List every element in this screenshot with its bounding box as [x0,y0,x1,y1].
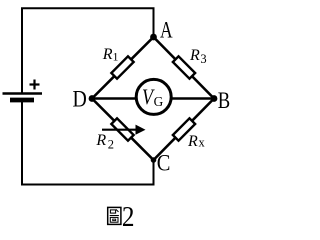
svg-text:A: A [160,18,173,43]
svg-text:R: R [102,46,113,63]
node D [89,95,96,102]
node A [150,34,157,41]
svg-text:D: D [73,86,87,112]
svg-text:x: x [199,136,206,150]
battery E [3,80,43,101]
resistor Rx (box) [173,118,195,140]
svg-text:G: G [154,94,164,109]
svg-text:R: R [187,133,198,150]
caption: glyph 圖 drawn as strokes [108,207,121,224]
svg-text:R: R [95,132,106,149]
resistor R1 (box) [111,56,133,78]
wire top rail [22,8,154,92]
node C [151,157,157,163]
wire bridge arm A-D [92,37,154,99]
R2 wiper arrow [102,125,146,135]
node B [211,95,218,102]
wire galvanometer branch D-B [92,97,214,99]
wire bottom rail [22,101,154,185]
svg-text:R: R [189,47,200,64]
wire bridge arm D-C [92,99,154,161]
svg-text:2: 2 [108,138,114,152]
resistor R3 (box) [173,56,195,78]
resistor R2 (variable, box) [111,118,133,140]
svg-text:B: B [218,87,230,113]
galvanometer VG [136,79,171,114]
svg-text:1: 1 [113,50,119,64]
svg-text:C: C [157,150,171,175]
wire bridge arm C-B [154,99,215,161]
wire bridge arm A-B [154,37,215,99]
svg-text:3: 3 [200,52,206,66]
svg-text:2: 2 [122,200,135,232]
